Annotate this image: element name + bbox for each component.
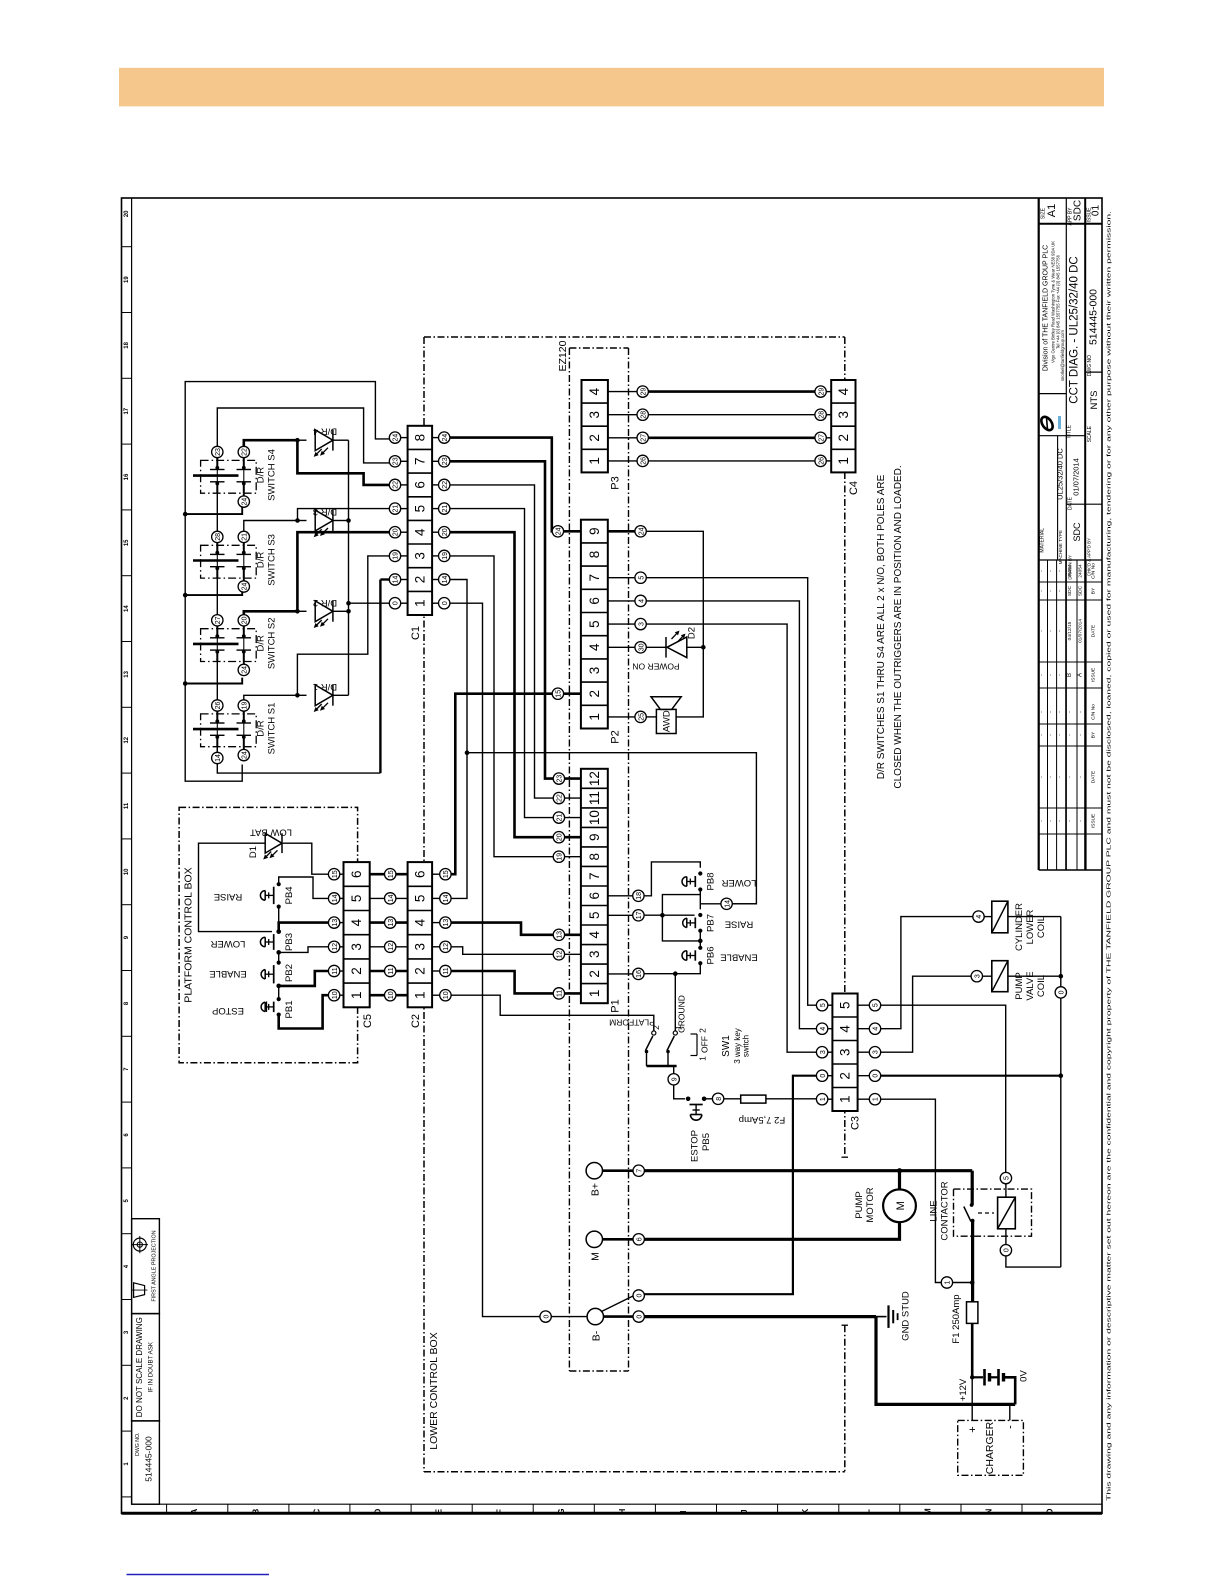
- svg-text:22: 22: [393, 481, 400, 489]
- wire net 20 C1 to P1: [450, 532, 553, 837]
- wire net0 from C1 pin1 to cathode common: [349, 602, 395, 604]
- wire LED D/R4 links: [297, 439, 306, 441]
- battery cell short bar: [988, 1373, 991, 1382]
- svg-text:1: 1: [587, 990, 602, 998]
- svg-text:PB2: PB2: [284, 964, 295, 982]
- node wire C5 pin 4 left: [328, 917, 339, 928]
- svg-text:C: C: [312, 1508, 321, 1514]
- svg-text:D2: D2: [687, 627, 698, 639]
- svg-text:27: 27: [215, 616, 222, 624]
- svg-text:14: 14: [393, 576, 400, 584]
- svg-text:C1: C1: [410, 626, 422, 640]
- svg-text:PUMP: PUMP: [1014, 972, 1025, 999]
- node wire C4 pin 1: [815, 455, 826, 466]
- wire net 26 P3 to C4: [648, 460, 815, 462]
- D/R switch S3: [201, 545, 257, 578]
- svg-text:3: 3: [412, 943, 427, 951]
- node wire 0 right of B-: [633, 1311, 644, 1322]
- svg-text:24: 24: [242, 666, 249, 674]
- node wire C1 pin 2 right: [439, 574, 450, 585]
- svg-text:D/R 1: D/R 1: [313, 681, 337, 692]
- svg-text:30: 30: [638, 643, 645, 651]
- svg-text:5: 5: [1004, 1176, 1011, 1180]
- wire motor top: [898, 1171, 901, 1190]
- svg-text:PB1: PB1: [284, 1001, 295, 1019]
- svg-text:LOWER: LOWER: [1025, 909, 1036, 944]
- svg-text:24: 24: [638, 527, 645, 535]
- LED D/R 2: [315, 601, 333, 622]
- svg-text:15: 15: [388, 870, 395, 878]
- svg-text:21: 21: [557, 814, 564, 822]
- node wire P1 pin 5 right: [633, 910, 644, 921]
- wire motor bottom / net 6: [644, 1222, 899, 1239]
- node wire 5 coil top: [1000, 1172, 1011, 1183]
- svg-text:PB5: PB5: [701, 1133, 712, 1151]
- svg-text:11: 11: [587, 791, 602, 805]
- node wire P2 pin 5 right: [635, 618, 646, 629]
- svg-text:C5: C5: [362, 1014, 374, 1028]
- node wire C5 pin 3 left: [328, 941, 339, 952]
- svg-text:1: 1: [873, 1097, 880, 1101]
- node wire C3 pin 3 right: [869, 1047, 880, 1058]
- node wire C3 pin 5 right: [869, 1000, 880, 1011]
- wire charger -: [1009, 1404, 1011, 1420]
- svg-text:E: E: [435, 1508, 444, 1514]
- svg-text:IF IN DOUBT ASK: IF IN DOUBT ASK: [148, 1341, 155, 1392]
- svg-text:C4: C4: [848, 481, 860, 495]
- svg-text:0: 0: [820, 1074, 827, 1078]
- svg-text:0: 0: [873, 1074, 880, 1078]
- svg-text:1: 1: [349, 991, 364, 999]
- svg-text:0: 0: [636, 1293, 643, 1297]
- svg-text:3: 3: [587, 667, 602, 675]
- svg-text:MATERIAL: MATERIAL: [1040, 528, 1046, 553]
- pushbutton PB8 LOWER: [698, 871, 702, 875]
- node wire C1 pin 4 right: [439, 527, 450, 538]
- svg-text:0: 0: [543, 1315, 550, 1319]
- svg-text:PLATFORM CONTROL BOX: PLATFORM CONTROL BOX: [183, 867, 195, 1002]
- coil PUMP VALVE COIL: [992, 961, 1008, 992]
- svg-text:D/R: D/R: [256, 552, 267, 569]
- svg-text:11: 11: [332, 967, 339, 974]
- node wire P1 pin 10 left: [553, 812, 564, 823]
- node wire C2 pin 1 left: [385, 990, 396, 1001]
- svg-text:9: 9: [587, 528, 602, 536]
- svg-text:COIL: COIL: [1036, 916, 1047, 938]
- svg-text:This drawing and any informati: This drawing and any information or desc…: [1107, 210, 1113, 1501]
- svg-text:7: 7: [412, 458, 427, 466]
- wire net16 to SW1 ground pole: [674, 974, 676, 1031]
- svg-text:5: 5: [412, 505, 427, 513]
- svg-text:2: 2: [349, 967, 364, 975]
- svg-text:CONTACTOR: CONTACTOR: [940, 1181, 951, 1240]
- node wire 15 P2.2 left: [552, 688, 563, 699]
- wire net 5 C3.5 right to contactor coil: [881, 1005, 1006, 1172]
- pushbutton PB5 ESTOP: [686, 1097, 691, 1102]
- svg-text:17: 17: [124, 407, 130, 414]
- svg-text:6: 6: [587, 597, 602, 605]
- pump motor: [883, 1189, 916, 1222]
- wire chain PB7-PB6: [699, 931, 701, 948]
- node wire C2 pin 2 left: [385, 965, 396, 976]
- svg-text:5: 5: [820, 1003, 827, 1007]
- svg-text:D/R: D/R: [256, 467, 267, 484]
- node wire 7: [633, 1165, 644, 1176]
- svg-text:1: 1: [838, 1095, 853, 1103]
- svg-text:3: 3: [349, 943, 364, 951]
- svg-text:CYLINDER: CYLINDER: [1014, 903, 1025, 951]
- wire net 15 C2.6 to P2.2: [451, 694, 552, 875]
- wire net 11 C2.2 to P1.1: [451, 971, 553, 993]
- svg-text:13: 13: [557, 931, 564, 939]
- svg-text:7: 7: [587, 574, 602, 582]
- svg-text:7: 7: [636, 1169, 643, 1173]
- svg-text:6: 6: [587, 892, 602, 900]
- wire net 3 C3.3 right to pump valve coil: [881, 976, 971, 1052]
- svg-text:GROUND: GROUND: [677, 995, 687, 1033]
- svg-text:12: 12: [388, 943, 395, 951]
- wire LED D/R2 links: [297, 610, 306, 612]
- svg-text:0V: 0V: [1019, 1370, 1030, 1382]
- node wire C3 pin 3 left: [816, 1047, 827, 1058]
- svg-text:F1 250Amp: F1 250Amp: [951, 1294, 962, 1343]
- svg-text:28: 28: [640, 411, 647, 419]
- node wire C2 pin 6 left: [385, 869, 396, 880]
- node wire C1 pin 3 right: [439, 550, 450, 561]
- svg-text:4: 4: [638, 599, 645, 603]
- svg-text:4: 4: [820, 1027, 827, 1031]
- svg-text:19: 19: [442, 552, 449, 560]
- svg-text:1: 1: [945, 1280, 952, 1284]
- wire net 22 C1 to P1: [450, 485, 553, 798]
- node wire 0 left of B-: [540, 1311, 551, 1322]
- svg-text:4: 4: [349, 918, 364, 926]
- node wire 6: [633, 1234, 644, 1245]
- wire net 0 C1.1 to B-: [450, 603, 540, 1316]
- coil CYLINDER LOWER COIL: [992, 901, 1008, 933]
- svg-text:UL25/32/40 DC: UL25/32/40 DC: [1056, 448, 1065, 500]
- svg-text:14: 14: [724, 900, 731, 908]
- svg-text:ISSUE: ISSUE: [1091, 668, 1097, 682]
- svg-text:LOWER CONTROL BOX: LOWER CONTROL BOX: [428, 1332, 440, 1449]
- wire net 25 P2.1 to AWD: [646, 716, 656, 718]
- svg-text:21: 21: [242, 533, 249, 541]
- svg-text:G: G: [557, 1508, 566, 1514]
- svg-text:12: 12: [332, 943, 339, 951]
- wire net 4 P2.6 to C3.4: [646, 601, 816, 1029]
- svg-text:24: 24: [393, 434, 400, 442]
- svg-text:M: M: [895, 1201, 907, 1210]
- node wire C1 pin 8 left: [389, 432, 400, 443]
- svg-text:514445-000: 514445-000: [144, 1436, 154, 1482]
- wire net 14 C1.2 long route: [450, 580, 467, 899]
- svg-text:8: 8: [412, 434, 427, 442]
- svg-text:13: 13: [124, 670, 130, 677]
- svg-text:N: N: [985, 1508, 994, 1514]
- svg-text:3: 3: [638, 622, 645, 626]
- svg-text:29: 29: [640, 388, 647, 396]
- svg-text:12: 12: [557, 950, 564, 958]
- svg-text:22: 22: [557, 794, 564, 802]
- svg-text:2: 2: [587, 434, 602, 442]
- svg-text:11: 11: [388, 967, 395, 974]
- svg-text:ESTOP: ESTOP: [690, 1130, 701, 1162]
- node wire 24 P2.9 left: [552, 526, 563, 537]
- svg-text:28: 28: [215, 533, 222, 541]
- svg-text:23: 23: [393, 457, 400, 465]
- wire net22 route to C1 pin6: [244, 440, 298, 446]
- node wire 24: [243, 578, 245, 581]
- node wire 0 trunk: [1055, 987, 1066, 998]
- pushbutton PB1 ESTOP: [277, 997, 281, 1001]
- svg-text:M: M: [923, 1508, 932, 1515]
- wire SW1 common bar: [646, 1052, 648, 1067]
- svg-text:21: 21: [393, 505, 400, 513]
- wire chain PB3-PB2: [278, 952, 280, 962]
- wire net 11 PB2 bottom: [279, 971, 329, 986]
- node wire P3 pin 1: [637, 455, 648, 466]
- svg-text:COIL: COIL: [1036, 975, 1047, 997]
- D/R switch S1: [201, 714, 257, 747]
- svg-text:SDC: SDC: [1078, 585, 1084, 596]
- node wire P2 pin 9 right: [635, 526, 646, 537]
- wire charger +: [971, 1377, 973, 1420]
- svg-text:RAISE: RAISE: [725, 919, 754, 930]
- node wire C3 pin 2 right: [869, 1070, 880, 1081]
- svg-text:22: 22: [242, 448, 249, 456]
- svg-text:10: 10: [332, 991, 339, 999]
- node wire 0 coil bottom: [1000, 1245, 1011, 1256]
- node wire C2 pin 4 right: [440, 917, 451, 928]
- node wire P2 pin 1 right: [635, 711, 646, 722]
- svg-text:4: 4: [587, 387, 602, 395]
- svg-text:21: 21: [442, 505, 449, 513]
- svg-text:SDC: SDC: [1073, 200, 1084, 221]
- svg-text:5: 5: [412, 895, 427, 903]
- svg-text:1: 1: [587, 457, 602, 465]
- node wire C1 pin 7 right: [439, 456, 450, 467]
- wire net 10 PB1 bottom: [279, 995, 329, 1028]
- node wire 24: [243, 747, 245, 750]
- svg-text:SDC: SDC: [1067, 585, 1073, 596]
- wire net19 route to C1 pin3: [244, 695, 298, 700]
- SW1 OFF position bracket: [696, 1034, 698, 1056]
- svg-text:20: 20: [242, 616, 249, 624]
- wire net 0 right trunk: [1060, 917, 1062, 987]
- wire net 0 C3.2 right: [881, 1075, 1061, 1077]
- platform control box boundary: [179, 807, 358, 1062]
- node wire 20: [238, 615, 249, 626]
- drawing frame border: [122, 198, 1103, 1513]
- contactor coil: [998, 1197, 1016, 1229]
- svg-text:0: 0: [1004, 1248, 1011, 1252]
- wire net20 route to C1 pin4: [244, 611, 298, 614]
- svg-text:16: 16: [636, 970, 643, 978]
- svg-text:15: 15: [124, 539, 130, 546]
- svg-text:-: -: [1005, 1425, 1017, 1429]
- LED D/R 1: [315, 685, 333, 706]
- wire net 16 P1.2 to PB6/SW1: [644, 963, 700, 974]
- fuse F2 7.5Amp: [741, 1095, 766, 1103]
- svg-text:DATE: DATE: [1068, 496, 1074, 510]
- battery 12V: [970, 1375, 974, 1379]
- svg-text:24: 24: [242, 583, 249, 591]
- node wire C3 pin 4 left: [816, 1023, 827, 1034]
- svg-text:P3: P3: [610, 476, 622, 489]
- svg-text:+12V: +12V: [958, 1378, 969, 1401]
- wire net 12 PB3 bottom: [279, 947, 329, 953]
- svg-text:I: I: [679, 1510, 688, 1512]
- terminal B+: [586, 1163, 602, 1179]
- svg-text:9: 9: [671, 1077, 678, 1081]
- D/R switch S4: [201, 460, 257, 493]
- svg-text:C/N No: C/N No: [1091, 563, 1097, 579]
- wire 24 drop S3: [185, 591, 242, 595]
- svg-text:FIRST ANGLE PROJECTION: FIRST ANGLE PROJECTION: [152, 1230, 158, 1301]
- svg-text:L: L: [862, 1509, 871, 1514]
- svg-text:13: 13: [443, 919, 450, 927]
- node wire C2 pin 6 right: [440, 869, 451, 880]
- svg-text:17: 17: [636, 911, 643, 919]
- connector P1: [581, 769, 608, 1003]
- svg-text:LOW BAT: LOW BAT: [250, 827, 292, 838]
- wire 24 drop S2: [185, 678, 242, 684]
- svg-text:01: 01: [1091, 205, 1102, 217]
- wire LED cathode common: [348, 440, 350, 695]
- node wire P1 pin 11 left: [553, 792, 564, 803]
- svg-text:D/R: D/R: [256, 720, 267, 737]
- wire net 14 tee: [699, 895, 701, 910]
- svg-text:GND STUD: GND STUD: [901, 1291, 912, 1341]
- svg-text:PB4: PB4: [284, 886, 295, 904]
- svg-text:2: 2: [587, 970, 602, 978]
- svg-text:1: 1: [412, 599, 427, 607]
- node wire C1 pin 3 left: [389, 550, 400, 561]
- svg-text:A: A: [1078, 673, 1084, 677]
- svg-text:AWD: AWD: [662, 710, 673, 732]
- svg-text:SWITCH S2: SWITCH S2: [267, 617, 278, 669]
- svg-text:04/12/15: 04/12/15: [1067, 621, 1073, 640]
- charger box: [958, 1420, 1024, 1475]
- wire net 21 C1 to P1: [450, 509, 553, 818]
- svg-text:B: B: [1067, 673, 1073, 677]
- svg-text:RAISE: RAISE: [214, 891, 243, 902]
- svg-text:6: 6: [636, 1237, 643, 1241]
- svg-text:ESTOP: ESTOP: [212, 1005, 244, 1016]
- connector C4: [831, 380, 855, 472]
- svg-text:13: 13: [332, 919, 339, 927]
- lower control box boundary: [424, 336, 845, 338]
- node wire 3 at coil: [971, 971, 982, 982]
- node wire C5 pin 2 left: [328, 965, 339, 976]
- node wire C1 pin 4 left: [389, 527, 400, 538]
- node wire C3 pin 5 left: [816, 1000, 827, 1011]
- node wire C2 pin 3 left: [385, 941, 396, 952]
- svg-text:4: 4: [838, 1025, 853, 1033]
- node wire 4 at coil: [973, 911, 984, 922]
- LED D/R 3: [315, 510, 333, 531]
- svg-text:7: 7: [587, 872, 602, 880]
- pushbutton PB4 RAISE: [277, 882, 281, 886]
- svg-text:LINE: LINE: [929, 1200, 940, 1221]
- wire net 3 P2.5 to C3.3: [646, 624, 816, 1052]
- node wire 19: [238, 700, 249, 711]
- svg-text:5: 5: [638, 576, 645, 580]
- svg-text:15: 15: [443, 870, 450, 878]
- node wire C3 pin 4 right: [869, 1023, 880, 1034]
- svg-text:CLOSED WHEN THE OUTRIGGERS ARE: CLOSED WHEN THE OUTRIGGERS ARE IN POSITI…: [893, 465, 904, 788]
- node wire C3 pin 1 right: [869, 1094, 880, 1105]
- svg-text:ENABLE: ENABLE: [209, 968, 247, 979]
- node wire 23: [212, 446, 223, 457]
- svg-text:B-: B-: [591, 1330, 603, 1341]
- svg-text:DWG NO.: DWG NO.: [135, 1433, 141, 1456]
- svg-text:13: 13: [388, 919, 395, 927]
- svg-text:14: 14: [388, 894, 395, 902]
- svg-text:23: 23: [557, 775, 564, 783]
- wire LED D/R3 links: [297, 520, 306, 522]
- svg-text:D/R 4: D/R 4: [313, 426, 337, 437]
- node wire 24: [243, 493, 245, 496]
- connector C2: [408, 862, 433, 1007]
- svg-text:SWITCH S3: SWITCH S3: [267, 534, 278, 586]
- wire net 24 P2.9 right to D2/AWD: [646, 531, 703, 717]
- svg-text:NTS: NTS: [1089, 391, 1100, 410]
- node wire C2 pin 2 right: [440, 965, 451, 976]
- orange header bar: [119, 68, 1104, 107]
- node wire C1 pin 7 left: [389, 456, 400, 467]
- title block: [1038, 198, 1040, 870]
- svg-text:2: 2: [651, 1025, 661, 1030]
- DO NOT SCALE box: [132, 1314, 160, 1421]
- node wire P3 pin 3: [637, 409, 648, 420]
- svg-text:26: 26: [215, 702, 222, 710]
- node wire C1 pin 6 right: [439, 479, 450, 490]
- svg-text:27: 27: [640, 434, 647, 442]
- connector P2: [581, 520, 608, 729]
- wire net 23 C1 to P1: [450, 461, 553, 778]
- node wire C2 pin 3 right: [440, 941, 451, 952]
- node wire C1 pin 6 left: [389, 479, 400, 490]
- svg-text:24: 24: [442, 434, 449, 442]
- svg-text:D/R SWITCHES S1 THRU S4 ARE AL: D/R SWITCHES S1 THRU S4 ARE ALL 2 x N/O,…: [876, 474, 887, 779]
- node wire 28: [212, 531, 223, 542]
- svg-text:P2: P2: [610, 730, 622, 743]
- svg-text:3: 3: [873, 1050, 880, 1054]
- node wire P1 pin 3 left: [553, 949, 564, 960]
- svg-text:B: B: [251, 1508, 260, 1514]
- svg-text:8: 8: [587, 853, 602, 861]
- svg-text:26: 26: [818, 457, 825, 465]
- node wire C5 pin 6 left: [328, 869, 339, 880]
- wire C5-C2 pin 1: [370, 994, 408, 997]
- svg-text:0: 0: [636, 1315, 643, 1319]
- node wire C1 pin 5 right: [439, 503, 450, 514]
- node wire P2 pin 6 right: [635, 595, 646, 606]
- wire coil bottom net 0: [1005, 1229, 1007, 1244]
- node wire C5 pin 5 left: [328, 893, 339, 904]
- svg-text:19: 19: [557, 853, 564, 861]
- wire PB8 bottom jog: [662, 890, 700, 916]
- battery cell long bar 2: [997, 1369, 1000, 1386]
- line contactor: [954, 1189, 1032, 1236]
- wire net 12 C2.3 to P1.3: [451, 947, 553, 955]
- AWD sounder: [656, 709, 676, 733]
- wire net24 trunk A: [185, 382, 394, 782]
- svg-text:SWITCH S4: SWITCH S4: [267, 449, 278, 501]
- wire net 30 P2.4 to LED D2: [646, 646, 666, 648]
- node wire C5 pin 1 left: [328, 990, 339, 1001]
